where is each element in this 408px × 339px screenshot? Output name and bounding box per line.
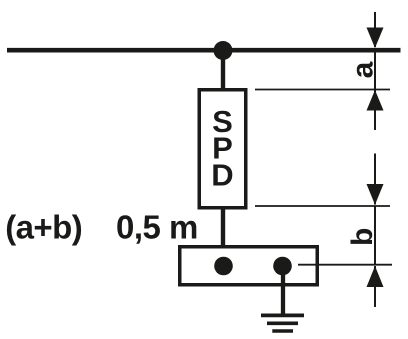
extension line at SPD top level [255, 89, 390, 91]
svg-text:(a+b): (a+b) [5, 208, 82, 245]
arrowhead pointing up at busbar extension line [367, 266, 384, 287]
wire: top horizontal conductor [7, 48, 401, 53]
ground: earth symbol top bar [261, 313, 304, 317]
extension line at SPD bottom level [255, 205, 390, 207]
ground: earth symbol middle bar [267, 321, 298, 325]
ground: earth symbol bottom bar [272, 329, 293, 333]
arrowhead pointing down at SPD bottom extension line [367, 184, 384, 205]
wire: junction to SPD top [221, 50, 225, 89]
dimension line segment for span a [374, 53, 376, 131]
svg-text:a: a [346, 61, 379, 78]
arrowhead pointing up at SPD top extension line [367, 90, 384, 111]
wire: busbar to ground [281, 266, 285, 316]
svg-text:D: D [211, 158, 233, 193]
extension line at busbar terminal level [298, 264, 392, 266]
node: junction dot on top conductor [214, 41, 233, 60]
SPD arrester U1: rectangle body [199, 90, 246, 208]
dimension line segment for span b [374, 206, 376, 265]
busbar: equipotential bonding bar rectangle [180, 247, 318, 285]
dimension line segment below busbar extension [374, 266, 376, 307]
dimension line segment above top conductor [374, 12, 376, 47]
node: busbar terminal dot left [214, 257, 233, 276]
node: busbar terminal dot right [273, 257, 292, 276]
dimension line segment above SPD bottom extension [374, 154, 376, 205]
svg-text:0,5 m: 0,5 m [116, 208, 198, 245]
arrowhead pointing down at top conductor [367, 28, 384, 49]
svg-text:b: b [346, 228, 379, 246]
wire: SPD bottom to equipotential busbar [221, 208, 225, 266]
